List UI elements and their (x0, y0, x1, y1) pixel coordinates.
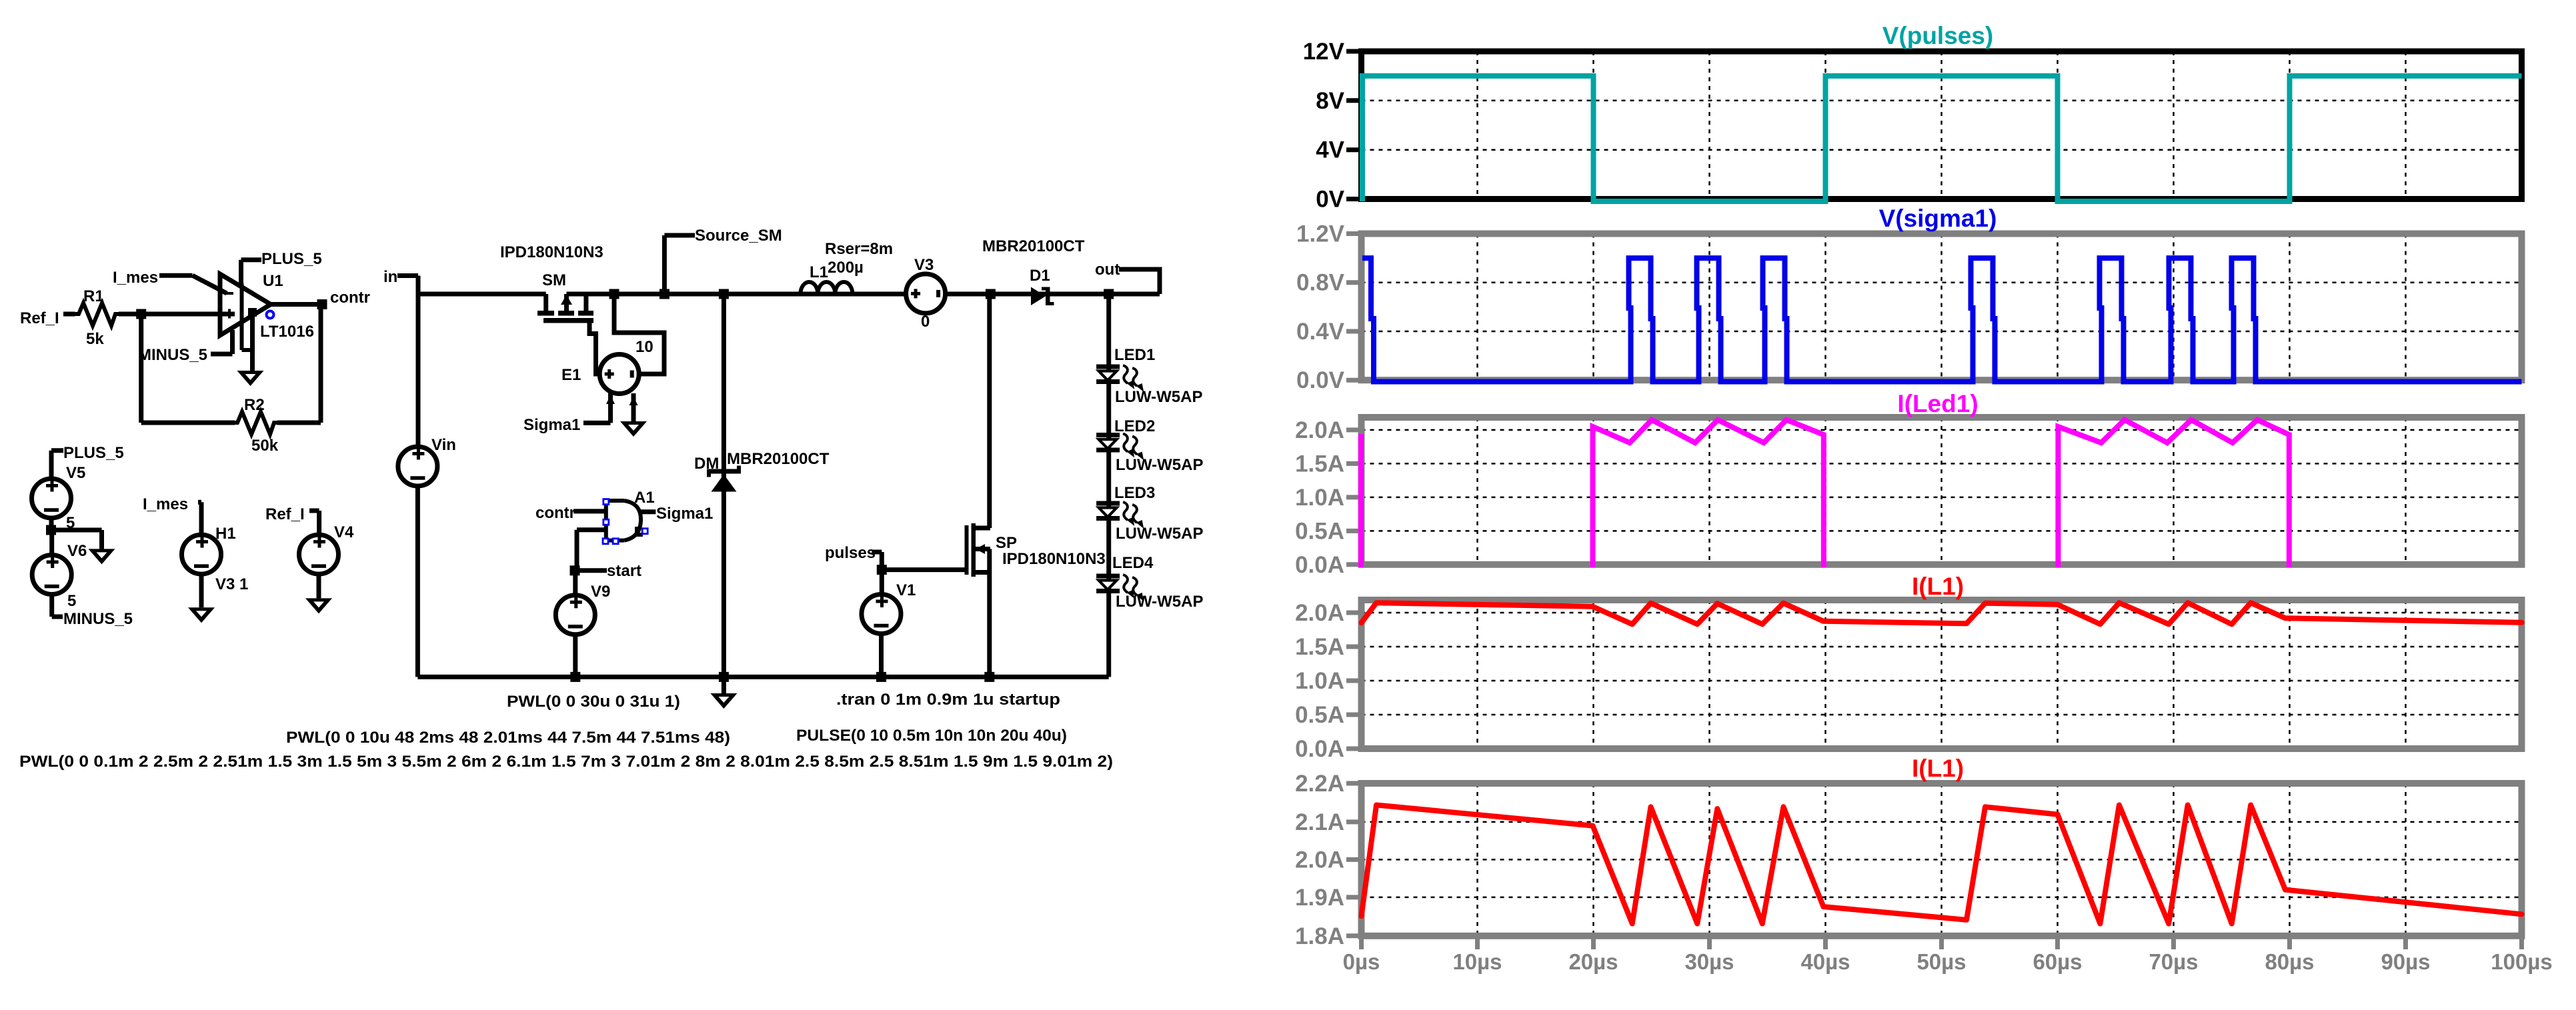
svg-text:10: 10 (635, 338, 654, 356)
svg-text:2.0A: 2.0A (1295, 417, 1344, 443)
svg-text:pulses: pulses (825, 544, 876, 562)
svg-text:LED3: LED3 (1114, 484, 1155, 502)
svg-text:I_mes: I_mes (143, 495, 188, 513)
svg-text:LUW-W5AP: LUW-W5AP (1116, 525, 1204, 543)
svg-text:PWL(0 0 10u 48 2ms 48 2.01ms 4: PWL(0 0 10u 48 2ms 48 2.01ms 44 7.5m 44 … (286, 729, 730, 747)
svg-text:8V: 8V (1316, 88, 1344, 114)
svg-text:Sigma1: Sigma1 (523, 416, 580, 434)
svg-text:V4: V4 (334, 523, 354, 541)
svg-text:200µ: 200µ (828, 259, 864, 277)
svg-text:Rser=8m: Rser=8m (825, 240, 893, 258)
svg-text:Ref_I: Ref_I (265, 505, 305, 523)
svg-text:SP: SP (996, 534, 1017, 552)
svg-text:D1: D1 (1030, 267, 1050, 285)
svg-text:MINUS_5: MINUS_5 (63, 610, 133, 628)
svg-text:0.0V: 0.0V (1296, 367, 1345, 393)
svg-text:R1: R1 (83, 287, 104, 305)
svg-text:LED2: LED2 (1114, 417, 1155, 435)
svg-text:70µs: 70µs (2149, 949, 2198, 974)
svg-text:MBR20100CT: MBR20100CT (727, 450, 830, 468)
svg-text:1.8A: 1.8A (1295, 923, 1344, 949)
svg-text:1.9A: 1.9A (1295, 885, 1344, 911)
svg-text:PLUS_5: PLUS_5 (261, 250, 322, 268)
svg-text:in: in (383, 268, 397, 286)
svg-text:PWL(0 0 30u 0 31u 1): PWL(0 0 30u 0 31u 1) (507, 693, 680, 711)
svg-text:2.2A: 2.2A (1295, 771, 1344, 797)
svg-text:LUW-W5AP: LUW-W5AP (1116, 593, 1204, 611)
svg-text:PLUS_5: PLUS_5 (63, 444, 124, 462)
svg-text:12V: 12V (1303, 39, 1345, 65)
svg-text:contr: contr (535, 504, 575, 522)
svg-text:E1: E1 (561, 366, 581, 384)
svg-text:LT1016: LT1016 (260, 323, 314, 341)
svg-text:A1: A1 (634, 489, 655, 507)
svg-text:0.0A: 0.0A (1295, 552, 1344, 578)
svg-text:PULSE(0 10 0.5m 10n 10n 20u 40: PULSE(0 10 0.5m 10n 10n 20u 40u) (796, 727, 1067, 745)
svg-text:Source_SM: Source_SM (695, 227, 782, 245)
svg-text:5k: 5k (86, 330, 104, 348)
svg-text:5: 5 (67, 592, 76, 610)
svg-text:50k: 50k (251, 437, 279, 455)
svg-text:MINUS_5: MINUS_5 (138, 346, 207, 364)
svg-text:start: start (607, 562, 641, 580)
svg-text:I(L1): I(L1) (1912, 573, 1964, 600)
svg-text:IPD180N10N3: IPD180N10N3 (1002, 550, 1106, 568)
svg-text:30µs: 30µs (1684, 949, 1734, 974)
svg-text:2.1A: 2.1A (1295, 809, 1344, 835)
svg-text:V9: V9 (591, 583, 610, 601)
svg-text:LED4: LED4 (1112, 554, 1154, 572)
svg-text:contr: contr (330, 289, 370, 307)
svg-text:V5: V5 (66, 464, 85, 482)
svg-text:V(sigma1): V(sigma1) (1879, 205, 1997, 232)
svg-text:1.0A: 1.0A (1295, 485, 1344, 511)
svg-text:0.5A: 0.5A (1295, 518, 1344, 544)
svg-text:LED1: LED1 (1114, 346, 1155, 364)
svg-text:LUW-W5AP: LUW-W5AP (1116, 456, 1204, 474)
svg-text:MBR20100CT: MBR20100CT (982, 237, 1085, 255)
svg-text:1.0A: 1.0A (1295, 668, 1344, 694)
svg-text:10µs: 10µs (1452, 949, 1502, 974)
svg-text:I_mes: I_mes (113, 269, 158, 287)
svg-text:0.4V: 0.4V (1296, 319, 1345, 345)
svg-text:V1: V1 (896, 581, 916, 599)
svg-text:V3 1: V3 1 (215, 575, 248, 593)
svg-text:90µs: 90µs (2381, 949, 2430, 974)
svg-text:80µs: 80µs (2265, 949, 2314, 974)
svg-text:50µs: 50µs (1916, 949, 1966, 974)
svg-text:Vin: Vin (431, 436, 456, 454)
svg-text:100µs: 100µs (2491, 949, 2552, 974)
svg-text:0: 0 (921, 313, 930, 331)
svg-text:H1: H1 (215, 525, 236, 543)
svg-text:4V: 4V (1316, 137, 1344, 163)
svg-text:PWL(0 0 0.1m 2 2.5m 2 2.51m 1.: PWL(0 0 0.1m 2 2.5m 2 2.51m 1.5 3m 1.5 5… (19, 753, 1113, 771)
svg-text:0V: 0V (1316, 187, 1344, 213)
svg-text:U1: U1 (263, 272, 283, 290)
svg-text:Ref_I: Ref_I (20, 309, 59, 327)
svg-text:SM: SM (542, 271, 566, 289)
svg-text:L1: L1 (810, 263, 828, 281)
svg-text:Sigma1: Sigma1 (656, 505, 713, 523)
svg-text:0.5A: 0.5A (1295, 702, 1344, 728)
svg-text:40µs: 40µs (1800, 949, 1850, 974)
svg-text:2.0A: 2.0A (1295, 600, 1344, 626)
svg-text:0µs: 0µs (1343, 949, 1380, 974)
svg-text:2.0A: 2.0A (1295, 847, 1344, 873)
svg-text:20µs: 20µs (1568, 949, 1618, 974)
svg-text:60µs: 60µs (2033, 949, 2082, 974)
svg-text:0.8V: 0.8V (1296, 270, 1345, 296)
svg-text:.tran 0 1m 0.9m 1u startup: .tran 0 1m 0.9m 1u startup (836, 691, 1060, 709)
svg-text:1.5A: 1.5A (1295, 634, 1344, 660)
svg-text:IPD180N10N3: IPD180N10N3 (500, 243, 603, 261)
svg-text:DM: DM (694, 455, 719, 473)
svg-text:1.5A: 1.5A (1295, 451, 1344, 477)
svg-text:0.0A: 0.0A (1295, 736, 1344, 762)
svg-text:1.2V: 1.2V (1296, 221, 1345, 247)
svg-text:out: out (1095, 261, 1120, 279)
svg-text:LUW-W5AP: LUW-W5AP (1115, 388, 1203, 406)
svg-text:V(pulses): V(pulses) (1882, 22, 1994, 49)
svg-text:I(L1): I(L1) (1912, 755, 1964, 782)
svg-text:V3: V3 (914, 256, 934, 274)
svg-text:I(Led1): I(Led1) (1897, 390, 1978, 417)
svg-text:V6: V6 (67, 542, 87, 560)
svg-text:R2: R2 (244, 396, 265, 414)
